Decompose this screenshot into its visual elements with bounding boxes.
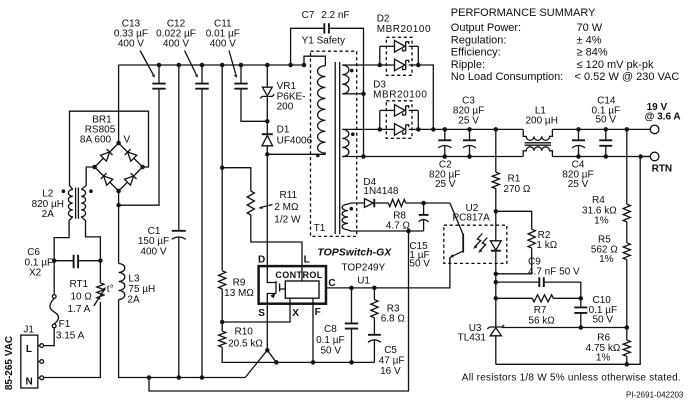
svg-text:25 V: 25 V — [458, 116, 479, 127]
svg-text:MBR20100: MBR20100 — [373, 90, 427, 101]
svg-text:25 V: 25 V — [568, 179, 589, 190]
svg-text:RTN: RTN — [652, 164, 673, 175]
fuse F1 — [53, 261, 55, 295]
svg-text:1N4148: 1N4148 — [363, 186, 398, 197]
TOPSwitch U1 box — [259, 266, 326, 304]
node L2 phase dot right — [89, 189, 93, 193]
LED U2 — [495, 189, 497, 241]
inductor L2 right winding — [81, 190, 85, 217]
svg-text:8A 600: 8A 600 — [80, 134, 112, 145]
svg-text:D: D — [258, 255, 265, 266]
wire F pin down — [312, 304, 314, 363]
connector J1 — [21, 335, 38, 388]
capacitor C13 — [152, 84, 165, 89]
wire X pin link — [222, 304, 290, 322]
capacitor C1 — [178, 65, 180, 231]
divider chain R4 R5 R6 — [626, 129, 628, 204]
wire D2 anode bus — [379, 46, 381, 65]
diode D2 upper — [380, 45, 395, 47]
capacitor C15 — [423, 203, 425, 215]
wire top DC+ rail — [119, 64, 304, 66]
svg-text:L2: L2 — [42, 189, 54, 200]
svg-text:2A: 2A — [127, 295, 140, 306]
transistor U2 photo — [450, 203, 463, 235]
svg-text:R9: R9 — [233, 278, 246, 289]
shunt regulator U3 TL431 — [487, 325, 504, 329]
resistor R10 — [219, 331, 226, 347]
resistor R2 — [494, 209, 499, 214]
capacitor C10 — [580, 298, 582, 307]
node bridge minus / C13 tie — [116, 203, 121, 208]
svg-text:All resistors 1/8 W 5% unless: All resistors 1/8 W 5% unless otherwise … — [462, 373, 681, 384]
arrow R11 leader — [262, 205, 273, 208]
wire primary bottom lead — [267, 153, 325, 155]
mosfet U1 internal — [267, 266, 276, 304]
wire D2 cathode bus — [417, 46, 419, 65]
svg-text:PI-2691-042203: PI-2691-042203 — [626, 391, 684, 400]
svg-text:J1: J1 — [23, 325, 34, 336]
node bridge top — [116, 141, 121, 146]
transformer T1 dashed box — [311, 51, 357, 236]
core L2 — [76, 188, 79, 219]
capacitor C6 — [54, 260, 100, 262]
svg-text:Y1 Safety: Y1 Safety — [302, 35, 345, 46]
wire rail to bridge top — [118, 65, 120, 143]
svg-text:R6: R6 — [597, 332, 610, 343]
wire X F from control — [290, 298, 313, 304]
diode D3 upper — [380, 109, 395, 111]
svg-text:13 MΩ: 13 MΩ — [224, 288, 254, 299]
svg-text:2 MΩ: 2 MΩ — [274, 202, 299, 213]
diode D1 — [266, 121, 268, 134]
svg-text:3.15 A: 3.15 A — [56, 330, 85, 341]
svg-text:400 V: 400 V — [118, 38, 144, 49]
svg-text:± 4%: ± 4% — [577, 34, 602, 46]
TVS VR1 — [262, 87, 272, 96]
svg-text:200: 200 — [277, 102, 294, 113]
svg-text:CONTROL: CONTROL — [275, 270, 322, 280]
svg-text:400 V: 400 V — [210, 38, 236, 49]
capacitor C2 — [444, 129, 446, 140]
wire bias return rail — [149, 231, 409, 391]
svg-text:20.5 kΩ: 20.5 kΩ — [228, 338, 263, 349]
opto light arrows — [480, 238, 487, 251]
resistor R4 — [623, 204, 630, 222]
diode D4 — [365, 199, 374, 208]
node bridge bottom — [116, 189, 121, 194]
svg-text:16 V: 16 V — [380, 366, 401, 377]
node sec2 phase dot — [351, 132, 355, 136]
resistor R1 — [495, 129, 497, 172]
svg-text:N: N — [26, 377, 33, 388]
diode D2 lower — [380, 64, 395, 66]
svg-text:UF4006: UF4006 — [277, 135, 313, 146]
node sec1 phase dot — [350, 69, 354, 73]
diode BR1 bottom-left — [101, 173, 113, 185]
capacitor C11 — [240, 65, 242, 84]
svg-text:F: F — [315, 307, 321, 318]
svg-text:VR1: VR1 — [277, 81, 297, 92]
wire output plus rail — [418, 128, 650, 130]
winding T1 primary — [318, 66, 326, 155]
resistor R7 — [496, 297, 533, 299]
capacitor C9 — [496, 282, 581, 298]
node bridge right — [140, 165, 145, 170]
capacitor C4 — [578, 129, 580, 140]
capacitor C3 — [469, 129, 471, 140]
node bias phase dot — [350, 207, 354, 211]
wire C13 tie — [119, 89, 159, 206]
svg-text:D2: D2 — [377, 14, 390, 25]
svg-text:10 Ω: 10 Ω — [71, 292, 93, 303]
svg-text:S: S — [258, 308, 265, 319]
svg-text:1%: 1% — [596, 352, 611, 363]
capacitor C7 safety — [291, 28, 364, 94]
wire RTN rail right of L1 — [552, 156, 650, 158]
svg-text:56 kΩ: 56 kΩ — [528, 316, 555, 327]
svg-text:50 V: 50 V — [321, 346, 342, 357]
svg-text:C5: C5 — [384, 345, 397, 356]
node C6 left — [52, 258, 57, 263]
svg-text:R4: R4 — [592, 195, 605, 206]
svg-text:TOP249Y: TOP249Y — [342, 263, 386, 274]
wire bridge bottom to L3 — [118, 191, 120, 264]
svg-text:50 V: 50 V — [409, 259, 430, 270]
svg-text:6.8 Ω: 6.8 Ω — [381, 314, 406, 325]
diode BR1 bottom-right — [124, 173, 136, 185]
diode BR1 top-left — [100, 149, 112, 161]
svg-text:4.7 Ω: 4.7 Ω — [386, 220, 411, 231]
node L2 phase dot left — [62, 189, 66, 193]
svg-text:85-265 VAC: 85-265 VAC — [4, 336, 15, 390]
svg-text:V: V — [124, 134, 131, 145]
terminal RTN — [641, 156, 651, 158]
node C7/sec1 junction — [361, 92, 366, 97]
wire C pin line — [326, 257, 450, 288]
resistor R3 — [373, 288, 375, 300]
arrow C12 leader — [185, 51, 197, 75]
svg-text:0.1 µF: 0.1 µF — [316, 335, 345, 346]
wire clamp column — [266, 65, 268, 87]
rectifier D2 dashed box — [386, 37, 412, 75]
node C6 right — [98, 258, 103, 263]
wire sec1 return — [363, 94, 365, 157]
wire R9 chain from rail — [221, 65, 223, 271]
thermistor RT1 — [99, 261, 101, 283]
svg-text:T1: T1 — [314, 223, 326, 234]
arrow C11 leader — [229, 51, 236, 75]
wire D3 cathode bus — [417, 110, 419, 129]
winding T1 bias — [342, 204, 348, 230]
resistor R11 feed — [222, 168, 251, 191]
svg-text:X: X — [292, 308, 299, 319]
diode D3 lower — [380, 128, 395, 130]
svg-text:2A: 2A — [42, 209, 55, 220]
resistor R8 — [388, 199, 405, 206]
wire D2 output — [418, 65, 433, 129]
winding T1 secondary 1 — [342, 65, 349, 94]
svg-text:MBR20100: MBR20100 — [377, 24, 431, 35]
wire primary top jog — [304, 56, 325, 65]
svg-text:50 V: 50 V — [593, 314, 614, 325]
svg-text:@ 3.6 A: @ 3.6 A — [645, 112, 681, 123]
svg-text:R10: R10 — [235, 326, 254, 337]
svg-text:R11: R11 — [280, 190, 298, 201]
svg-text:C8: C8 — [324, 324, 337, 335]
inductor L2 left winding — [68, 190, 72, 217]
svg-text:≥ 84%: ≥ 84% — [577, 47, 608, 59]
capacitor C12 — [201, 65, 203, 84]
capacitor C8 — [351, 288, 353, 324]
wire REF line — [502, 327, 627, 329]
capacitor C14 — [605, 129, 607, 140]
wire S pin to node — [266, 304, 268, 351]
wire R5 to R6 with REF tap — [626, 260, 628, 340]
wire R10 to source rail — [222, 347, 374, 362]
svg-text:400 V: 400 V — [163, 38, 189, 49]
wire feedback bottom rail — [496, 157, 640, 365]
node primary phase dot — [316, 154, 320, 158]
bridge rectifier BR1 diamond — [95, 143, 143, 191]
svg-text:Regulation:: Regulation: — [451, 34, 507, 46]
core T1 — [335, 62, 340, 234]
wire drain to D pin — [266, 154, 268, 266]
wire TL431 cathode column — [495, 274, 497, 327]
svg-text:1.7 A: 1.7 A — [68, 304, 91, 315]
svg-text:F1: F1 — [59, 319, 71, 330]
svg-text:Output Power:: Output Power: — [451, 22, 521, 34]
svg-text:C7: C7 — [302, 10, 315, 21]
svg-text:D1: D1 — [277, 124, 290, 135]
svg-text:L: L — [26, 344, 32, 355]
rectifier D3 dashed box — [386, 101, 412, 139]
svg-text:PERFORMANCE SUMMARY: PERFORMANCE SUMMARY — [451, 7, 596, 19]
svg-text:400 V: 400 V — [140, 246, 166, 257]
svg-text:D3: D3 — [373, 79, 386, 90]
svg-text:50 V: 50 V — [596, 114, 617, 125]
svg-text:L3: L3 — [128, 274, 140, 285]
svg-text:70 W: 70 W — [577, 22, 603, 34]
svg-text:TL431: TL431 — [458, 333, 487, 344]
svg-text:t°: t° — [107, 284, 114, 295]
svg-text:1 kΩ: 1 kΩ — [536, 240, 557, 251]
terminal 19V — [650, 125, 659, 134]
winding T1 secondary 2 — [342, 129, 349, 156]
resistor R9 — [219, 271, 226, 289]
node drain junction — [265, 152, 270, 157]
svg-text:L: L — [304, 255, 310, 266]
svg-text:≤ 120 mV pk-pk: ≤ 120 mV pk-pk — [577, 59, 654, 71]
wire L2 left bottom to C6 left — [54, 217, 73, 261]
svg-text:R1: R1 — [508, 173, 521, 184]
arrow C13 leader — [140, 51, 153, 75]
wire L2 right bottom to C6 right — [81, 217, 100, 261]
svg-text:Efficiency:: Efficiency: — [451, 47, 501, 59]
wire bridge right AC loop over top — [70, 111, 149, 189]
svg-text:RT1: RT1 — [70, 279, 89, 290]
svg-text:1%: 1% — [594, 215, 609, 226]
wire R9 to R10, X junction — [221, 289, 223, 331]
svg-text:200 µH: 200 µH — [525, 116, 557, 127]
svg-text:TOPSwitch-GX: TOPSwitch-GX — [317, 247, 392, 259]
optocoupler U2 dashed box — [444, 225, 507, 263]
svg-text:No Load Consumption:: No Load Consumption: — [451, 71, 564, 83]
svg-text:Ripple:: Ripple: — [451, 59, 485, 71]
wire S node diagonals — [245, 350, 276, 377]
node bridge left — [92, 165, 97, 170]
control block — [285, 281, 319, 298]
svg-text:< 0.52 W @ 230 VAC: < 0.52 W @ 230 VAC — [575, 71, 680, 83]
svg-text:U1: U1 — [357, 275, 370, 286]
wire D3 anode bus — [379, 110, 381, 129]
svg-text:75 µH: 75 µH — [128, 284, 155, 295]
svg-text:270 Ω: 270 Ω — [503, 184, 530, 195]
wire bridge left AC to L2 right winding — [81, 167, 94, 190]
svg-text:2.2 nF: 2.2 nF — [321, 10, 349, 21]
inductor L1 — [523, 129, 552, 140]
svg-text:4.7 nF 50 V: 4.7 nF 50 V — [528, 266, 580, 277]
diode BR1 top-right — [125, 149, 137, 161]
resistor R6 — [623, 340, 630, 356]
capacitor C5 — [373, 318, 375, 335]
svg-text:1/2 W: 1/2 W — [274, 214, 301, 225]
svg-text:25 V: 25 V — [435, 179, 456, 190]
inductor L3 — [119, 264, 125, 300]
svg-text:R7: R7 — [534, 305, 547, 316]
RT1 t-degree arrow — [94, 289, 105, 307]
svg-text:47 µF: 47 µF — [379, 355, 405, 366]
resistor R5 — [626, 222, 628, 243]
svg-text:1%: 1% — [599, 254, 614, 265]
svg-text:X2: X2 — [29, 267, 42, 278]
